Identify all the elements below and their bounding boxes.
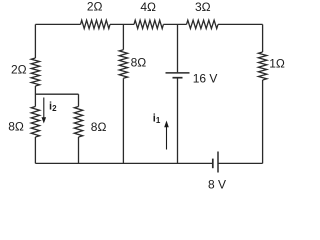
svg-text:1Ω: 1Ω bbox=[269, 56, 285, 70]
wire top between 2ohm and 4ohm bbox=[110, 23, 134, 25]
current arrow i2 (down) bbox=[42, 98, 47, 124]
resistor 3ohm top bbox=[187, 20, 219, 28]
svg-text:i1: i1 bbox=[153, 112, 161, 125]
wire battery 16V branch top lead bbox=[177, 24, 179, 72]
svg-text:16 V: 16 V bbox=[193, 72, 218, 86]
svg-text:8 V: 8 V bbox=[208, 177, 226, 191]
wire right top lead bbox=[262, 24, 264, 52]
svg-text:2Ω: 2Ω bbox=[11, 62, 27, 76]
wire battery 16V branch bottom lead bbox=[177, 78, 179, 163]
resistor 2ohm left bbox=[31, 58, 39, 86]
resistor 4ohm top bbox=[134, 20, 163, 28]
svg-text:3Ω: 3Ω bbox=[195, 0, 211, 14]
wire top between 4ohm and 3ohm bbox=[163, 23, 186, 25]
battery 16V short plate bbox=[173, 77, 183, 79]
resistor 8ohm second branch bbox=[74, 107, 82, 138]
wire left bottom lead bbox=[34, 137, 36, 163]
battery 8V short plate bbox=[212, 159, 214, 169]
wire mid-left horizontal bbox=[35, 93, 78, 95]
resistor 8ohm bottom-left bbox=[31, 107, 39, 138]
svg-text:4Ω: 4Ω bbox=[140, 0, 156, 14]
wire top-left segment bbox=[35, 23, 80, 25]
resistor 8ohm middle bbox=[119, 50, 127, 79]
wire left top lead bbox=[34, 24, 36, 58]
svg-text:8Ω: 8Ω bbox=[8, 120, 24, 134]
wire second branch top lead bbox=[78, 94, 80, 106]
wire second branch bottom lead bbox=[78, 137, 80, 163]
wire right bottom lead bbox=[262, 80, 264, 163]
svg-text:2Ω: 2Ω bbox=[87, 0, 103, 14]
resistor 1ohm right bbox=[258, 52, 266, 80]
wire middle branch bottom lead bbox=[122, 78, 124, 163]
wire bottom left segment bbox=[35, 162, 212, 164]
battery 8V long plate bbox=[217, 152, 219, 173]
svg-text:i2: i2 bbox=[49, 101, 57, 114]
wire left middle segment bbox=[34, 86, 36, 107]
resistor 2ohm top bbox=[81, 20, 111, 28]
svg-text:8Ω: 8Ω bbox=[91, 120, 107, 134]
current arrow i1 (up) bbox=[164, 121, 169, 150]
wire bottom right segment bbox=[218, 162, 263, 164]
wire top-right segment bbox=[218, 23, 263, 25]
svg-text:8Ω: 8Ω bbox=[131, 56, 147, 70]
battery 16V long plate bbox=[166, 72, 190, 74]
wire middle branch top lead bbox=[122, 24, 124, 49]
